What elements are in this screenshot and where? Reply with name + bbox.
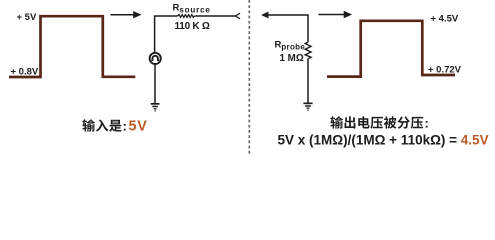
svg-text:+ 0.8V: + 0.8V	[11, 67, 39, 78]
svg-text::: :	[425, 116, 429, 131]
wire: Rprobe to ground	[307, 59, 309, 103]
svg-text:5V x (1MΩ)/(1MΩ + 110kΩ) = 4.5: 5V x (1MΩ)/(1MΩ + 110kΩ) = 4.5V	[278, 132, 489, 147]
svg-text:+ 5V: + 5V	[17, 12, 37, 23]
wire: generator to ground	[154, 65, 156, 104]
caption: input is (Chinese)	[82, 119, 121, 132]
resistor Rprobe (vertical zigzag)	[305, 42, 311, 59]
svg-text:1 MΩ: 1 MΩ	[280, 53, 304, 64]
ground (probe side)	[303, 103, 312, 111]
arrow from probe circuit to output waveform	[319, 11, 353, 18]
pulse generator source symbol	[150, 53, 161, 64]
svg-text:5V: 5V	[129, 119, 148, 135]
wire: source output rail and drop to generator	[155, 16, 236, 52]
resistor Rsource (zigzag)	[178, 15, 196, 18]
svg-text:+ 0.72V: + 0.72V	[428, 65, 462, 76]
probe input arrow and rail	[261, 12, 308, 19]
ground (source side)	[151, 103, 160, 111]
svg-text:110 K Ω: 110 K Ω	[175, 21, 210, 32]
caption: output voltage is divided (Chinese)	[330, 116, 423, 129]
svg-text::: :	[123, 119, 127, 134]
dashed separator line	[248, 0, 250, 155]
wire: rail corner down to Rprobe	[307, 14, 309, 42]
input waveform (5V pulse)	[9, 16, 135, 77]
probe-tip chevron at end of source rail	[235, 13, 240, 19]
output waveform (4.5V pulse)	[327, 21, 455, 77]
arrow from input waveform to source circuit	[111, 11, 142, 18]
svg-text:+ 4.5V: + 4.5V	[431, 13, 459, 24]
